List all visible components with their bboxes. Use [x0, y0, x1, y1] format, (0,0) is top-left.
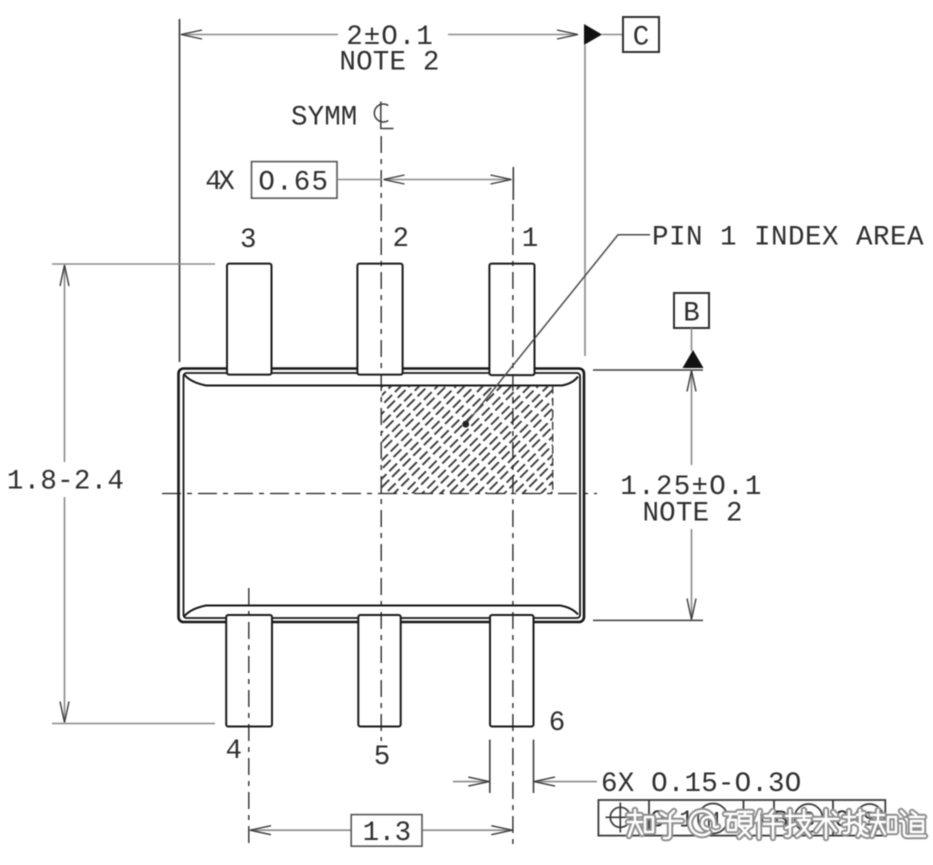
svg-text:5: 5: [374, 742, 391, 773]
body outline outer: [179, 369, 585, 623]
svg-text:1.3: 1.3: [363, 818, 411, 849]
centerline horizontal: [162, 493, 597, 495]
svg-text:B: B: [683, 299, 700, 330]
pin number 6: [549, 708, 566, 739]
datum B symbol: [674, 293, 709, 368]
svg-text:1: 1: [522, 224, 539, 255]
svg-text:C: C: [633, 22, 650, 53]
body top chamfer line: [185, 375, 579, 386]
svg-text:O.65: O.65: [258, 168, 329, 199]
svg-text:2: 2: [392, 224, 409, 255]
svg-text:NOTE 2: NOTE 2: [339, 48, 439, 79]
pin number 1: [522, 224, 539, 255]
svg-text:NOTE 2: NOTE 2: [642, 499, 742, 530]
dimension 1.8-2.4: [7, 264, 215, 724]
dimension 2±0.1: [180, 19, 586, 362]
centerline pin1/pin6 vertical: [512, 204, 514, 846]
pin number 2: [392, 224, 409, 255]
datum C symbol: [584, 17, 659, 53]
pin 2: [357, 264, 402, 375]
svg-text:4X: 4X: [205, 167, 235, 198]
svg-text:6X O.15-O.3O: 6X O.15-O.3O: [601, 769, 801, 800]
svg-text:PIN 1 INDEX AREA: PIN 1 INDEX AREA: [652, 223, 924, 254]
dimension 4X 0.65: [205, 162, 513, 200]
pin number 5: [374, 742, 391, 773]
dimension 1.3: [250, 815, 513, 849]
centerline pin4 vertical: [248, 588, 250, 846]
svg-text:SYMM: SYMM: [291, 103, 357, 134]
svg-text:4: 4: [225, 736, 242, 767]
pin 3: [227, 264, 272, 375]
pin 4: [226, 615, 272, 727]
svg-text:3: 3: [240, 225, 257, 256]
body bottom chamfer line: [185, 606, 579, 617]
dimension 6X 0.15-0.30: [453, 740, 801, 801]
dimension 1.25±0.1: [593, 370, 763, 620]
feature control frame: [598, 800, 885, 836]
pin 1 index area hatch: [382, 386, 553, 494]
svg-text:6: 6: [549, 708, 566, 739]
body outline inner: [184, 373, 581, 618]
pin 5: [358, 615, 400, 727]
watermark zhihu: [628, 810, 925, 838]
SYMM centerline label: [291, 102, 394, 134]
pin 1 index area leader and label: [462, 223, 924, 428]
pin 1: [489, 264, 534, 376]
pin 6: [490, 615, 534, 727]
centerline SYMM vertical: [380, 136, 382, 741]
svg-text:1.8-2.4: 1.8-2.4: [7, 467, 124, 498]
pin number 4: [225, 736, 242, 767]
pin number 3: [240, 225, 257, 256]
